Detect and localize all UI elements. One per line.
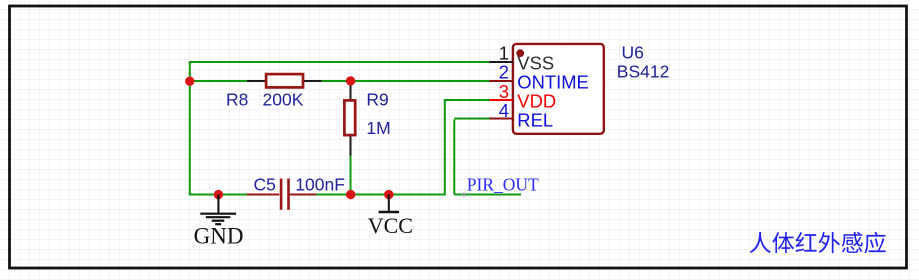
node C junction GND (214, 190, 223, 199)
svg-text:REL: REL (517, 110, 553, 131)
svg-text:PIR_OUT: PIR_OUT (467, 174, 539, 194)
svg-text:4: 4 (499, 100, 509, 121)
node B junction R9 top (346, 76, 355, 85)
op-amp U6 chip body (513, 44, 604, 134)
体 (772, 232, 794, 253)
node A junction (185, 77, 194, 86)
svg-text:VCC: VCC (368, 213, 413, 238)
svg-text:100nF: 100nF (295, 175, 345, 195)
svg-text:VDD: VDD (517, 91, 556, 112)
感 (842, 232, 863, 253)
net label PIR_OUT (462, 174, 539, 196)
svg-text:U6: U6 (622, 43, 644, 63)
title 人体红外感应 (750, 232, 886, 254)
wire C5 right to VDD vertical (317, 194, 446, 196)
capacitor C5 (247, 175, 345, 210)
wire top-left corner vertical (189, 61, 191, 81)
wire VDD vertical and pin3 (445, 100, 490, 196)
svg-text:ONTIME: ONTIME (517, 72, 589, 93)
wire R9 bottom to rail (350, 156, 352, 195)
svg-text:C5: C5 (254, 175, 276, 195)
wire pin4 REL to PIR_OUT vertical (454, 119, 489, 195)
wire bottom rail left to C5 (189, 194, 247, 196)
pin 1 marker dot (516, 49, 524, 57)
wire left vertical rail (189, 81, 191, 195)
wire node A to R8 left (190, 80, 247, 82)
wire pin1 VSS top rail (190, 61, 490, 63)
wire R8 right to pin2 ONTIME (322, 80, 490, 82)
resistor R9 (344, 81, 390, 156)
pin 2 stub (490, 80, 514, 82)
svg-text:VSS: VSS (517, 52, 554, 73)
svg-text:GND: GND (194, 224, 244, 249)
svg-text:BS412: BS412 (617, 61, 670, 81)
pin 4 stub (490, 118, 514, 120)
resistor R8 (226, 74, 322, 109)
svg-text:R9: R9 (366, 90, 388, 110)
pin 3 stub (490, 99, 514, 101)
红 (796, 232, 817, 252)
ground (194, 195, 244, 249)
node D junction R9 bottom (346, 190, 355, 199)
svg-text:1M: 1M (366, 118, 390, 138)
power VCC (368, 195, 413, 239)
pin 1 stub (490, 61, 514, 63)
人 (750, 232, 771, 253)
svg-text:3: 3 (499, 81, 509, 102)
svg-text:R8: R8 (226, 89, 248, 109)
svg-text:1: 1 (499, 42, 509, 63)
应 (865, 232, 886, 254)
node E junction VCC (384, 190, 393, 199)
wire PIR_OUT stub (454, 194, 521, 196)
svg-text:200K: 200K (263, 89, 304, 109)
外 (819, 232, 840, 253)
svg-text:2: 2 (499, 62, 509, 83)
